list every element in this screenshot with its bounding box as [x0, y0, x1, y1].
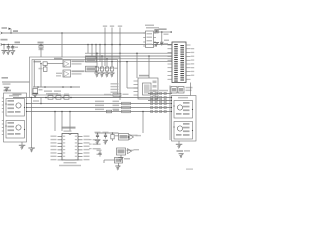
- wire inside horizontal y87: [33, 86, 80, 88]
- wire J3 down to module: [170, 83, 191, 141]
- wire x127 drop: [126, 61, 138, 88]
- label mid box rows: [56, 73, 62, 77]
- junction bus x41: [40, 98, 42, 105]
- capacitor C5 in box: [33, 89, 43, 94]
- ground U6: [118, 155, 123, 162]
- jumper JP1: [171, 87, 177, 94]
- wire bus line 3 to J3: [85, 58, 172, 60]
- series resistors y97.5: [151, 97, 167, 99]
- connector J1 label: [1, 39, 8, 41]
- label above U1: [54, 58, 63, 60]
- wire Y1 to J3: [158, 31, 172, 33]
- capacitor C8: [103, 132, 109, 145]
- resistor R10 vertical: [111, 133, 119, 142]
- ground in box: [32, 94, 38, 98]
- label Y1 value: [159, 28, 169, 35]
- junction bus x31: [31, 97, 33, 148]
- wire x149 drop: [148, 55, 150, 78]
- resistor pulldown R11: [94, 52, 102, 77]
- label rail start: [13, 94, 22, 96]
- ic LTC1664 left pins: [51, 136, 63, 161]
- wire rail y97.5: [13, 97, 172, 99]
- wire right stub y100.5: [148, 100, 172, 102]
- wire R3 down into box: [40, 45, 42, 58]
- wire DAC drop 2: [61, 111, 63, 131]
- net label CTRL1: [103, 25, 107, 66]
- junction ctrl x112: [111, 44, 113, 46]
- wire bus A y103.5: [27, 100, 173, 104]
- resistor pulldown R12: [99, 55, 107, 77]
- ic U7 row3: [104, 158, 130, 171]
- label U1B output: [72, 70, 85, 74]
- connector J3 pin labels: [191, 48, 194, 76]
- ground wire x31: [28, 148, 35, 152]
- ref box REF1: [86, 57, 97, 62]
- ic U5 reference: [119, 134, 138, 141]
- ic opto B: [5, 121, 25, 139]
- capacitor C2 bypass: [6, 45, 14, 56]
- label LTC1664: [62, 127, 76, 132]
- junction ctrl x105: [104, 44, 106, 46]
- label U1A output: [72, 60, 85, 64]
- wire right stub y93.5: [148, 93, 172, 95]
- resistor R6: [62, 94, 72, 100]
- ic U2 marks: [153, 81, 157, 97]
- capacitor C4 xtal: [154, 32, 164, 47]
- wire VCC rail y33: [1, 32, 146, 34]
- label R1: [34, 61, 48, 66]
- junction dots on +5V rail: [3, 44, 9, 46]
- wire x62 down into box: [61, 33, 63, 57]
- resistor pulldown R14: [109, 61, 117, 77]
- ref box REF2: [86, 66, 97, 72]
- op-amp U1B: [63, 70, 71, 77]
- wire bus drop 3: [95, 44, 97, 59]
- label jumper notes: [186, 87, 193, 91]
- series resistors y100.5: [151, 100, 167, 102]
- series resistors y103.5: [151, 103, 167, 105]
- wire J3 top pin: [168, 44, 173, 46]
- junction VCC rail x62: [61, 32, 63, 34]
- capacitor C3 bypass: [10, 45, 18, 56]
- label note corner: [186, 169, 193, 170]
- ic LTC1664 right pins: [78, 136, 90, 161]
- wire inner left: [33, 60, 35, 87]
- connector J3 right pins: [186, 45, 191, 79]
- wire bus drop 4: [99, 44, 101, 62]
- module right edge dots: [171, 97, 172, 112]
- label U2: [139, 75, 149, 77]
- ic U2 body: [138, 78, 158, 99]
- resistor R2 vertical: [39, 65, 48, 71]
- net label CTRL2: [110, 25, 114, 66]
- ic U6 regulator: [117, 148, 134, 155]
- wire DAC drop 3: [69, 111, 71, 131]
- wire bus drop 2: [91, 44, 93, 56]
- module box right: [172, 96, 197, 142]
- label in right module: [178, 97, 188, 99]
- ground left module: [19, 142, 26, 149]
- ground right module: [176, 141, 183, 148]
- label right module row: [150, 90, 169, 92]
- wire bus drop 1: [87, 44, 89, 53]
- resistor R3 on +5V rail: [38, 42, 44, 51]
- connector J3 body: [172, 42, 186, 83]
- diode D1 bottom right: [177, 150, 191, 158]
- label above y44 rail: [15, 42, 21, 44]
- wire cap feed y133: [95, 132, 119, 134]
- label output notes: [89, 139, 101, 149]
- wire bus line 1 to J3: [85, 52, 172, 54]
- ic LTC1664 body: [62, 134, 78, 161]
- wire bus line 2 to J3: [85, 55, 172, 57]
- labels U2 left: [111, 83, 119, 96]
- resistor pulldown R13: [104, 58, 112, 77]
- wire R1 to U1: [41, 64, 63, 88]
- box outline outer: [30, 57, 121, 98]
- series resistors y111.5: [151, 111, 167, 113]
- net label CTRL3: [118, 25, 122, 100]
- capacitor C1 bypass: [1, 45, 6, 55]
- wire x137 drop: [136, 52, 138, 78]
- resistor inline on bus C: [107, 110, 120, 113]
- ic U2 left pins: [134, 81, 139, 95]
- wire +5V rail y44.5: [1, 43, 172, 45]
- resistor R5: [54, 94, 61, 100]
- label C4 value: [164, 40, 169, 45]
- label rows in box: [44, 90, 61, 94]
- resistor R4: [45, 94, 53, 100]
- label U4 oscillator: [145, 25, 159, 29]
- connector J4 side: [2, 77, 30, 91]
- series resistors y93.5: [151, 93, 167, 95]
- ic opto C: [173, 101, 193, 119]
- module box left: [4, 93, 27, 142]
- ic U4 body: [146, 31, 154, 48]
- label GN package: [59, 162, 81, 166]
- box outline inner: [32, 60, 118, 96]
- ic opto D: [173, 122, 193, 140]
- op-amp U1A: [63, 60, 71, 67]
- connector J2 label: [4, 90, 12, 92]
- diode symbol row1: [128, 135, 141, 140]
- wire bus B y107.5: [27, 105, 173, 109]
- label VCC on rail: [13, 30, 18, 32]
- wire vout feed: [142, 111, 144, 133]
- ic LTC1664 pin numbers: [63, 136, 77, 161]
- ic U4 pins: [143, 33, 156, 46]
- label rail net: [104, 93, 129, 96]
- connector J3 left pins: [168, 45, 173, 79]
- node VCC arrow top-left: [2, 27, 12, 34]
- diode symbol row2: [128, 149, 140, 154]
- wire bus line 4 to J3: [85, 61, 172, 63]
- ic opto A: [5, 99, 25, 117]
- label in left module: [9, 95, 19, 97]
- crystal Y1: [155, 30, 158, 33]
- module left edge pins: [2, 98, 27, 135]
- wire DAC drop 1: [54, 111, 56, 131]
- junction ctrl x120: [119, 44, 121, 63]
- series resistors y107.5: [151, 107, 167, 109]
- capacitor C7: [95, 132, 101, 145]
- capacitor C9: [97, 150, 102, 157]
- wire bus C y111.5: [27, 109, 173, 113]
- jumper JP2: [178, 87, 184, 94]
